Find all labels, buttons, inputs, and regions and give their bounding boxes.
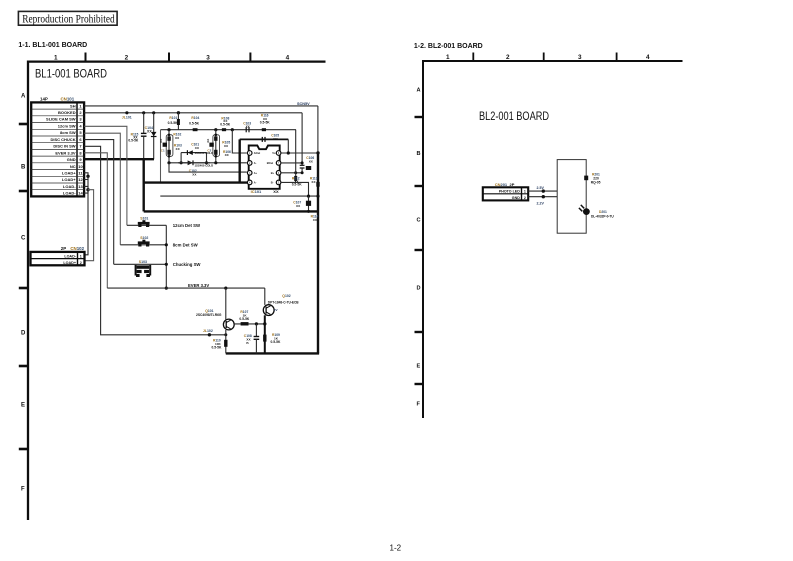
label R114 (311, 215, 319, 223)
resistor R107 (239, 310, 250, 326)
capacitor left of pair2 (206, 139, 214, 153)
wire pin5 (281, 182, 309, 196)
wire LOAD- pair stubs (84, 186, 88, 193)
diode D101 (181, 143, 213, 163)
svg-text:2P: 2P (61, 246, 66, 251)
svg-text:14P: 14P (40, 97, 48, 102)
svg-text:XX: XX (273, 189, 279, 194)
wire SH vertical drop (317, 106, 319, 153)
svg-text:A: A (21, 94, 26, 100)
svg-text:1-2. BL2-001 BOARD: 1-2. BL2-001 BOARD (414, 43, 483, 50)
svg-text:2P: 2P (510, 182, 515, 187)
svg-text:IC101: IC101 (251, 189, 262, 194)
svg-text:PHOTO LED: PHOTO LED (499, 190, 520, 194)
capacitor C103 on rail (243, 121, 251, 132)
node Q101 emitter junction (224, 333, 227, 336)
svg-text:S101: S101 (140, 217, 148, 221)
svg-text:0.5-5K: 0.5-5K (212, 345, 223, 349)
resistor pair R102/R103 (166, 130, 182, 163)
svg-text:C1: C1 (161, 148, 165, 152)
wire EVER 3.3V (107, 287, 264, 289)
BL2 loop rectangle (557, 160, 586, 234)
wire row5 8cmSW (84, 133, 120, 245)
svg-text:LOAD+: LOAD+ (62, 171, 76, 176)
svg-text:B: B (417, 151, 421, 157)
svg-text:0.5-5K: 0.5-5K (239, 317, 250, 321)
svg-text:LOAD+: LOAD+ (62, 177, 76, 182)
svg-text:4: 4 (286, 55, 290, 62)
svg-text:0.5-5K: 0.5-5K (220, 122, 231, 126)
node rail-R102 (167, 128, 170, 131)
switch S101 12cm Det SW (127, 217, 201, 228)
svg-text:C: C (417, 218, 421, 224)
label R116 ladder (260, 113, 271, 124)
svg-text:LOAD-: LOAD- (63, 184, 76, 189)
svg-text:10: 10 (78, 164, 83, 169)
svg-text:E: E (21, 403, 25, 409)
wire CN201 pin1 (528, 190, 557, 192)
svg-text:0.5-5K: 0.5-5K (260, 120, 271, 124)
svg-text:A+: A+ (254, 171, 258, 175)
connector CN201 (483, 182, 528, 200)
svg-text:CN102: CN102 (70, 246, 84, 251)
svg-text:D: D (21, 331, 26, 337)
label R104 ladder (189, 116, 200, 125)
svg-text:CN201: CN201 (495, 182, 508, 187)
svg-text:B: B (21, 165, 26, 171)
svg-text:DL-4032P-0-TU: DL-4032P-0-TU (591, 214, 614, 218)
svg-text:1SS400 COLD: 1SS400 COLD (195, 151, 214, 155)
wire GND row9 thick (84, 158, 154, 160)
node JL102 (208, 333, 211, 336)
svg-text:0.5-5K: 0.5-5K (168, 121, 179, 125)
svg-text:3: 3 (578, 54, 582, 61)
left frame ruler (19, 53, 326, 521)
capacitor left of pair (159, 139, 167, 153)
node row2-R101 (177, 111, 180, 114)
resistor pair R105/R106 (213, 130, 231, 163)
svg-text:2SC4098/TLR6G: 2SC4098/TLR6G (196, 313, 222, 317)
wire pin6 (281, 172, 302, 174)
wire row7 DISC IN SW (84, 146, 226, 334)
svg-text:C: C (21, 236, 26, 242)
svg-text:12cm SW: 12cm SW (58, 124, 76, 129)
svg-text:1-1. BL1-001 BOARD: 1-1. BL1-001 BOARD (18, 42, 87, 49)
wire pin1 riser (232, 130, 247, 153)
svg-text:AOut: AOut (254, 151, 260, 155)
transistor Q101 (196, 288, 234, 353)
svg-text:DPT-1848-C-TU-ECB: DPT-1848-C-TU-ECB (268, 300, 300, 304)
svg-text:0.5-5K: 0.5-5K (271, 340, 282, 344)
wire row4 12cmSW (84, 126, 127, 225)
connector CN101 (31, 97, 84, 197)
svg-text:SCN5V: SCN5V (297, 102, 310, 106)
wire pin3 rail y172.1 (169, 163, 247, 172)
svg-text:12cm Det SW: 12cm Det SW (173, 223, 201, 228)
svg-text:BOOKED: BOOKED (58, 110, 76, 115)
svg-text:CN101: CN101 (61, 97, 75, 102)
svg-text:1: 1 (80, 254, 82, 258)
svg-text:A-: A- (254, 181, 257, 185)
svg-text:EVER 3.3V: EVER 3.3V (188, 283, 209, 288)
capacitor C107 (293, 196, 311, 213)
svg-text:2: 2 (80, 261, 82, 265)
svg-text:LOAD+: LOAD+ (63, 261, 76, 265)
svg-text:R101: R101 (169, 116, 177, 120)
node row2-D103 (152, 111, 155, 114)
svg-text:2: 2 (125, 55, 129, 62)
svg-text:LOAD-: LOAD- (63, 191, 76, 196)
wire pin8 to SH vertical (281, 152, 318, 154)
capacitor C105 (262, 133, 279, 142)
svg-text:B+: B+ (271, 171, 275, 175)
svg-text:DISC IN SW: DISC IN SW (53, 144, 75, 149)
wire C105 down to pin8 rail (287, 139, 289, 153)
wire switches vertical (165, 225, 167, 288)
reproduction prohibited box (18, 11, 117, 25)
svg-text:2.5V: 2.5V (537, 186, 545, 190)
wire pin7 (281, 162, 302, 164)
svg-text:1-2: 1-2 (390, 544, 402, 553)
diode D103 (151, 113, 157, 159)
svg-text:JL101: JL101 (122, 116, 132, 120)
svg-text:0.5-5K: 0.5-5K (292, 183, 303, 187)
svg-text:NC: NC (70, 164, 76, 169)
wire row6 DISC CHUCK (84, 140, 114, 265)
resistor R101 vertical (168, 113, 180, 130)
svg-text:BOut: BOut (267, 161, 273, 165)
label R115 (128, 132, 139, 142)
wire row8 EVER (84, 153, 107, 288)
diode D102 (178, 160, 213, 167)
resistor R104 on rail (193, 128, 198, 131)
svg-text:2.2V: 2.2V (537, 201, 545, 205)
label C102 (189, 169, 198, 177)
svg-text:S102: S102 (140, 236, 148, 240)
svg-text:12: 12 (78, 177, 83, 182)
svg-text:DISC CHUCK: DISC CHUCK (50, 137, 75, 142)
resistor blob right of C103 (262, 128, 266, 131)
IC101 body (247, 146, 281, 195)
svg-text:XX: XX (206, 139, 210, 143)
resistor R109 (263, 333, 281, 344)
svg-text:B-: B- (271, 181, 274, 185)
wire row2 drop to C106 chain (301, 113, 303, 165)
wire mid rail y129.7 (161, 129, 297, 131)
svg-text:GND: GND (512, 196, 520, 200)
svg-text:0.5-5K: 0.5-5K (128, 139, 139, 143)
node row2-C104 (142, 111, 145, 114)
svg-text:S103: S103 (139, 260, 147, 264)
svg-text:SLIDE CAM SW: SLIDE CAM SW (46, 117, 76, 122)
wire mid rail left drop (160, 130, 162, 183)
svg-text:F: F (21, 487, 25, 493)
capacitor C108 (244, 324, 259, 354)
svg-text:Reproduction Prohibited: Reproduction Prohibited (22, 11, 115, 25)
wire bottom thick bus (226, 352, 319, 354)
wire thin rail y196.1 (160, 195, 318, 197)
switch S102 8cm Det SW (120, 236, 198, 247)
wire CN201 pin2 (528, 196, 557, 198)
svg-text:R104: R104 (191, 116, 199, 120)
wire pin2 rail y162.8 (169, 162, 247, 164)
wire SH thick vertical (317, 153, 319, 354)
wire C105 top (240, 138, 289, 140)
svg-text:2: 2 (524, 196, 526, 200)
thick L to IC pin4 (144, 181, 248, 183)
svg-text:0.5-5K: 0.5-5K (189, 121, 200, 125)
switch S103 Chucking SW (114, 260, 202, 277)
svg-text:E: E (417, 364, 421, 370)
svg-text:GND: GND (67, 157, 76, 162)
resistor R113 on thick vertical (310, 177, 320, 187)
svg-text:Q102: Q102 (282, 294, 290, 298)
svg-text:1: 1 (446, 54, 450, 61)
svg-text:D: D (417, 286, 421, 292)
resistor R110 (212, 338, 228, 349)
svg-text:BL2-001 BOARD: BL2-001 BOARD (479, 109, 549, 123)
svg-text:8cm SW: 8cm SW (60, 130, 76, 135)
svg-text:A: A (417, 88, 421, 94)
svg-text:Chucking SW: Chucking SW (173, 262, 202, 267)
svg-text:13: 13 (78, 184, 83, 189)
node JL101 (125, 111, 128, 114)
svg-text:EVER 3.3V: EVER 3.3V (55, 150, 76, 155)
svg-text:BL1-001 BOARD: BL1-001 BOARD (35, 67, 107, 81)
node rail-R105 (214, 128, 217, 131)
wire GND bus (144, 210, 319, 212)
svg-text:1SS400 COLD: 1SS400 COLD (195, 164, 214, 168)
connector CN102 (31, 246, 85, 265)
svg-text:RQ-05: RQ-05 (591, 181, 601, 185)
node diode-right (205, 161, 208, 164)
svg-text:JL102: JL102 (203, 329, 213, 333)
svg-text:2: 2 (506, 54, 510, 61)
svg-text:LOAD-: LOAD- (64, 254, 76, 258)
LED D201 (579, 205, 614, 218)
wire LOAD+ to CN102 pin2 (85, 190, 94, 261)
resistor R201 (584, 173, 600, 185)
wire Q101 base (234, 323, 265, 325)
svg-text:A-: A- (254, 161, 257, 165)
capacitor C104 (141, 113, 153, 159)
svg-text:1: 1 (54, 55, 58, 62)
wire SH row1 (84, 105, 318, 107)
svg-text:XX: XX (159, 139, 163, 143)
svg-text:4: 4 (646, 54, 650, 61)
svg-text:Vs: Vs (272, 151, 276, 155)
right frame ruler (415, 53, 683, 419)
wire GND thick vertical (142, 159, 144, 211)
capacitor C106 (300, 156, 315, 173)
label R108 ladder (220, 116, 231, 126)
svg-text:F: F (417, 402, 421, 408)
wire LOAD+ pair stubs (84, 173, 88, 180)
svg-text:3: 3 (206, 55, 210, 62)
svg-text:1: 1 (524, 190, 526, 194)
wire LOAD- to CN102 pin1 (85, 176, 89, 255)
svg-text:14: 14 (78, 191, 83, 196)
svg-text:8cm Det SW: 8cm Det SW (173, 243, 199, 248)
resistor R108 on rail (222, 128, 226, 131)
node rail-pin1 riser (231, 128, 234, 131)
resistor R112 (292, 130, 303, 187)
svg-text:SH: SH (70, 103, 76, 108)
node diode-left (180, 161, 183, 164)
wire row2 BOOKED (84, 112, 302, 114)
transistor Q102 (263, 288, 299, 353)
